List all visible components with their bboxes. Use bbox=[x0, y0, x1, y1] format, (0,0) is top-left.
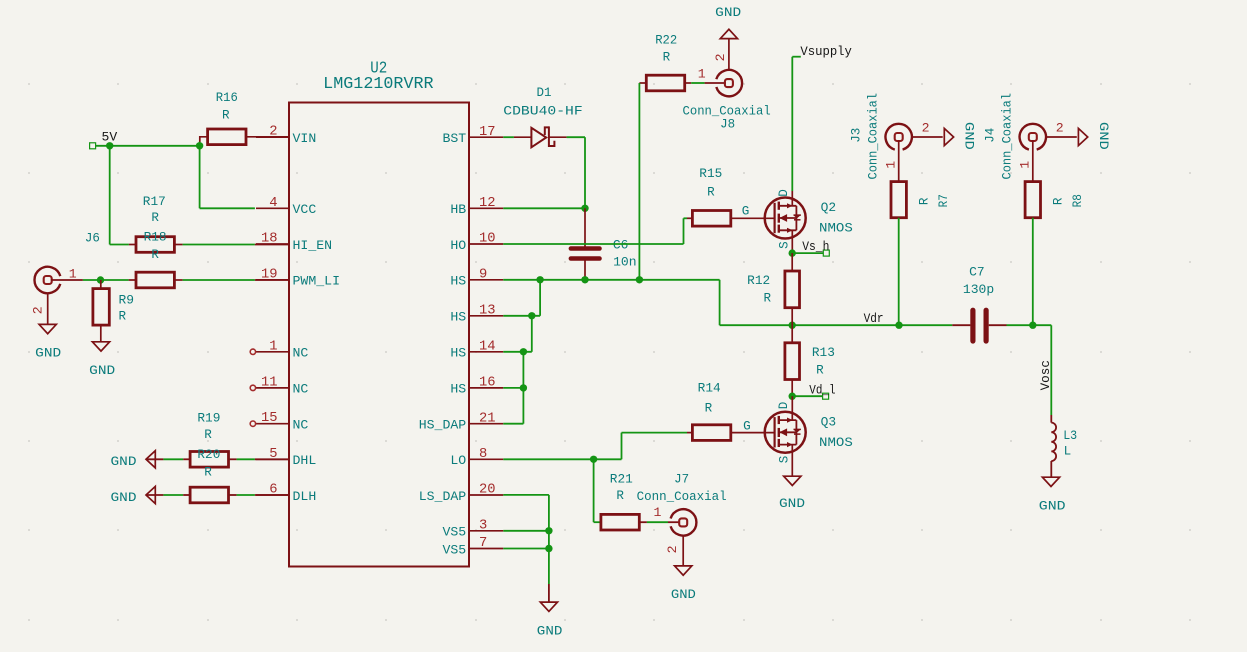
svg-text:Q3: Q3 bbox=[821, 415, 837, 429]
svg-text:HI_EN: HI_EN bbox=[293, 238, 333, 253]
svg-text:R: R bbox=[707, 186, 715, 200]
svg-text:16: 16 bbox=[479, 376, 496, 391]
svg-text:1: 1 bbox=[654, 505, 662, 520]
svg-text:D1: D1 bbox=[537, 86, 552, 100]
svg-text:NC: NC bbox=[293, 382, 309, 397]
svg-text:GND: GND bbox=[35, 346, 61, 360]
svg-text:LS_DAP: LS_DAP bbox=[419, 489, 467, 504]
svg-text:NMOS: NMOS bbox=[819, 222, 853, 236]
svg-text:GND: GND bbox=[89, 364, 115, 378]
svg-text:J8: J8 bbox=[720, 118, 735, 132]
svg-text:VIN: VIN bbox=[293, 131, 317, 146]
svg-text:R: R bbox=[1052, 197, 1066, 205]
svg-text:1: 1 bbox=[269, 339, 277, 354]
svg-text:Conn_Coaxial: Conn_Coaxial bbox=[683, 105, 771, 119]
svg-text:R: R bbox=[663, 51, 671, 65]
svg-text:NC: NC bbox=[293, 418, 309, 433]
svg-text:R: R bbox=[705, 402, 713, 416]
svg-text:G: G bbox=[743, 420, 751, 434]
svg-text:Conn_Coaxial: Conn_Coaxial bbox=[637, 490, 727, 504]
svg-text:J6: J6 bbox=[85, 232, 100, 246]
svg-text:GND: GND bbox=[1096, 122, 1110, 150]
svg-text:8: 8 bbox=[479, 447, 487, 462]
svg-text:2: 2 bbox=[713, 53, 728, 61]
svg-text:PWM_LI: PWM_LI bbox=[293, 274, 340, 289]
svg-text:HO: HO bbox=[450, 238, 466, 253]
svg-text:LMG1210RVRR: LMG1210RVRR bbox=[323, 74, 433, 93]
svg-text:21: 21 bbox=[479, 411, 496, 426]
svg-text:C7: C7 bbox=[969, 266, 985, 280]
svg-text:9: 9 bbox=[479, 268, 487, 283]
svg-text:R17: R17 bbox=[143, 195, 166, 209]
svg-text:GND: GND bbox=[715, 6, 741, 20]
svg-text:R: R bbox=[616, 489, 624, 503]
svg-text:Conn_Coaxial: Conn_Coaxial bbox=[1001, 93, 1015, 180]
svg-text:R: R bbox=[119, 310, 127, 324]
svg-text:2: 2 bbox=[922, 121, 930, 136]
svg-text:Vosc: Vosc bbox=[1039, 360, 1053, 390]
svg-text:VS5: VS5 bbox=[442, 525, 466, 540]
svg-text:BST: BST bbox=[442, 131, 466, 146]
svg-text:GND: GND bbox=[1039, 500, 1066, 514]
svg-text:1: 1 bbox=[698, 66, 706, 81]
svg-text:10n: 10n bbox=[613, 256, 637, 270]
svg-text:17: 17 bbox=[479, 125, 496, 140]
svg-text:L: L bbox=[1064, 445, 1072, 459]
svg-text:R21: R21 bbox=[610, 473, 633, 487]
svg-text:14: 14 bbox=[479, 340, 496, 355]
svg-text:R9: R9 bbox=[119, 294, 135, 308]
svg-text:HS: HS bbox=[450, 310, 466, 325]
svg-text:S: S bbox=[778, 241, 792, 249]
svg-text:11: 11 bbox=[261, 375, 278, 390]
svg-text:GND: GND bbox=[962, 122, 976, 150]
svg-text:3: 3 bbox=[479, 519, 487, 534]
svg-text:Vsupply: Vsupply bbox=[800, 45, 852, 59]
svg-text:J7: J7 bbox=[674, 473, 689, 487]
svg-text:12: 12 bbox=[479, 196, 496, 211]
svg-text:G: G bbox=[742, 205, 750, 219]
svg-text:L3: L3 bbox=[1063, 429, 1077, 443]
svg-text:Vs_h: Vs_h bbox=[802, 240, 829, 254]
svg-text:Vdr: Vdr bbox=[864, 312, 884, 326]
svg-text:R: R bbox=[204, 428, 212, 442]
svg-text:GND: GND bbox=[671, 588, 696, 602]
svg-text:HS: HS bbox=[450, 274, 466, 289]
svg-text:1: 1 bbox=[69, 267, 77, 282]
svg-text:LO: LO bbox=[450, 453, 466, 468]
svg-text:R: R bbox=[764, 292, 772, 306]
svg-text:R: R bbox=[151, 248, 159, 262]
svg-text:R: R bbox=[918, 197, 932, 205]
svg-text:10: 10 bbox=[479, 232, 496, 247]
svg-text:2: 2 bbox=[665, 545, 680, 553]
svg-text:R13: R13 bbox=[812, 346, 835, 360]
svg-text:Conn_Coaxial: Conn_Coaxial bbox=[866, 93, 880, 180]
svg-text:130p: 130p bbox=[963, 283, 994, 297]
svg-text:R14: R14 bbox=[698, 382, 721, 396]
svg-text:R20: R20 bbox=[197, 448, 220, 462]
svg-text:7: 7 bbox=[479, 536, 487, 551]
svg-text:VCC: VCC bbox=[293, 202, 317, 217]
svg-text:1: 1 bbox=[1018, 161, 1033, 169]
svg-text:2: 2 bbox=[1056, 121, 1064, 136]
svg-text:Q2: Q2 bbox=[821, 201, 837, 215]
svg-text:NC: NC bbox=[293, 346, 309, 361]
svg-text:HS_DAP: HS_DAP bbox=[419, 418, 467, 433]
svg-text:J4: J4 bbox=[984, 128, 998, 143]
svg-text:20: 20 bbox=[479, 483, 496, 498]
svg-text:S: S bbox=[778, 456, 792, 464]
svg-text:15: 15 bbox=[261, 411, 278, 426]
svg-text:R18: R18 bbox=[144, 231, 167, 245]
svg-text:R7: R7 bbox=[937, 194, 951, 207]
svg-text:R: R bbox=[151, 211, 159, 225]
svg-text:4: 4 bbox=[269, 196, 277, 211]
svg-text:1: 1 bbox=[884, 161, 899, 169]
svg-text:2: 2 bbox=[31, 306, 46, 314]
svg-text:D: D bbox=[777, 189, 791, 197]
svg-text:DLH: DLH bbox=[293, 489, 317, 504]
svg-text:GND: GND bbox=[779, 497, 805, 511]
svg-text:13: 13 bbox=[479, 304, 496, 319]
svg-text:R: R bbox=[222, 109, 230, 123]
svg-text:VS5: VS5 bbox=[442, 542, 466, 557]
svg-text:R15: R15 bbox=[699, 167, 722, 181]
svg-text:Vd_l: Vd_l bbox=[809, 383, 835, 397]
svg-text:R19: R19 bbox=[197, 411, 220, 425]
svg-text:C6: C6 bbox=[613, 239, 629, 253]
svg-text:GND: GND bbox=[537, 625, 563, 639]
svg-text:GND: GND bbox=[111, 455, 137, 469]
svg-text:R22: R22 bbox=[655, 33, 677, 47]
svg-text:HB: HB bbox=[450, 202, 466, 217]
svg-text:J3: J3 bbox=[850, 128, 864, 143]
svg-text:DHL: DHL bbox=[293, 453, 317, 468]
svg-text:R: R bbox=[204, 465, 212, 479]
svg-text:R12: R12 bbox=[747, 274, 770, 288]
svg-text:CDBU40-HF: CDBU40-HF bbox=[503, 105, 582, 119]
svg-text:R: R bbox=[816, 364, 824, 378]
svg-text:HS: HS bbox=[450, 346, 466, 361]
svg-text:D: D bbox=[777, 402, 791, 410]
svg-text:GND: GND bbox=[111, 491, 137, 505]
svg-text:R8: R8 bbox=[1071, 194, 1085, 207]
svg-text:NMOS: NMOS bbox=[819, 436, 853, 450]
svg-text:R16: R16 bbox=[216, 91, 238, 105]
svg-text:HS: HS bbox=[450, 382, 466, 397]
